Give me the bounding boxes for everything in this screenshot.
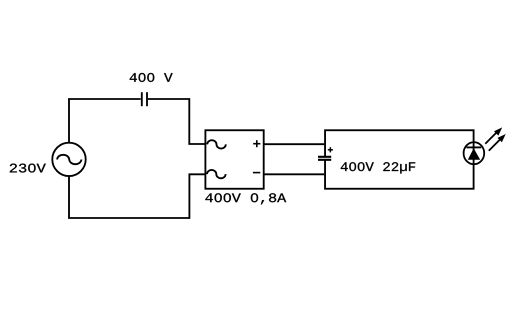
wire source top to rail (68, 99, 70, 143)
wire rectifier plus output (264, 143, 324, 145)
voltage source V1 (52, 143, 85, 176)
plus terminal of rectifier (253, 140, 260, 147)
label 230V (10, 164, 46, 173)
capacitor C2 (318, 157, 331, 160)
wire source bottom rail (69, 174, 205, 218)
LED D1 (464, 142, 485, 164)
LED driver box (325, 130, 474, 189)
wire top rail right to rectifier (148, 99, 205, 144)
bridge rectifier B1 (205, 130, 263, 189)
label 400V 0,8A (205, 193, 286, 204)
wire rectifier minus output (264, 173, 324, 175)
label 400 V (130, 73, 173, 82)
LED light arrow 1 (485, 127, 502, 143)
label 400V 22uF (341, 162, 415, 173)
minus terminal of rectifier (253, 172, 260, 174)
plus of capacitor C2 (328, 147, 333, 152)
LED light arrow 2 (489, 134, 506, 151)
wire top rail left (69, 98, 141, 101)
capacitor C1 (142, 92, 147, 106)
